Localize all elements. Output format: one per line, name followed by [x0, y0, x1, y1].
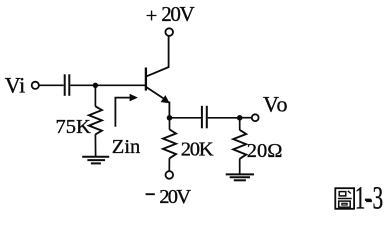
- ground G2: [226, 174, 254, 180]
- wire node C to Vo terminal: [240, 117, 252, 119]
- wire C1 to base: [70, 84, 145, 86]
- svg-text:20K: 20K: [181, 139, 214, 161]
- wire Vi to C1: [39, 84, 64, 86]
- resistor R1 75K: [89, 106, 102, 134]
- svg-text:20V: 20V: [159, 186, 191, 208]
- label -20V: [146, 193, 155, 195]
- transistor Q1 emitter with arrow: [147, 87, 167, 100]
- svg-text:20Ω: 20Ω: [247, 140, 283, 162]
- node B (emitter node): [167, 115, 173, 121]
- wire node B down to R2: [169, 118, 171, 130]
- svg-text:Zin: Zin: [112, 136, 140, 158]
- svg-text:+: +: [146, 5, 158, 27]
- capacitor C2: [202, 106, 207, 129]
- svg-text:75K: 75K: [56, 116, 92, 138]
- svg-text:Vo: Vo: [263, 92, 288, 117]
- svg-text:Vi: Vi: [5, 72, 26, 97]
- wire R2 to -20V terminal: [168, 158, 170, 171]
- wire node C down to R3: [239, 118, 241, 130]
- svg-text:20V: 20V: [161, 2, 195, 26]
- terminal -20V: [166, 171, 174, 179]
- transistor Q1 collector: [147, 36, 169, 76]
- node A (base node): [93, 83, 98, 88]
- transistor Q1 base bar: [145, 68, 147, 91]
- wire node B to C2: [170, 117, 202, 119]
- figure label CJK char (drawn): [335, 188, 354, 209]
- wire node A down to R1: [94, 85, 96, 106]
- terminal +20V: [165, 28, 173, 36]
- terminal Vo: [252, 114, 259, 121]
- terminal Vi: [32, 82, 39, 89]
- wire C2 to node C: [208, 117, 240, 119]
- wire emitter down to node B: [168, 102, 170, 119]
- wire R3 to ground: [239, 159, 241, 175]
- resistor R3 20 ohm: [233, 130, 246, 159]
- resistor R2 20K: [163, 129, 176, 158]
- capacitor C1: [65, 74, 70, 96]
- Zin pointer arrow: [115, 94, 137, 127]
- node C (Vo node): [237, 115, 243, 121]
- ground G1: [82, 157, 109, 164]
- wire R1 to ground: [94, 134, 96, 156]
- svg-text:1-3: 1-3: [355, 180, 383, 215]
